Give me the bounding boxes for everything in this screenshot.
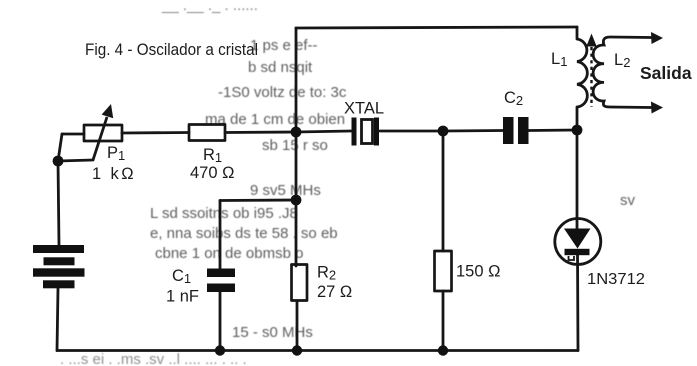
svg-text:1 ps e ef--: 1 ps e ef-- [250, 37, 318, 54]
wire: R1 to node A [225, 131, 296, 134]
svg-text:9 sv5 MHs: 9 sv5 MHs [250, 182, 321, 199]
wire: 150 ohm lower lead [442, 291, 445, 351]
wire: top horizontal rail [296, 27, 577, 28]
potentiometer P1 wiper arrow [93, 104, 113, 160]
node B junction dot [438, 126, 449, 137]
resistor R1 body [189, 125, 225, 141]
resistor R2 body [292, 265, 308, 301]
wire: node A to XTAL [296, 131, 351, 132]
svg-text:__ .__ ._ . ......: __ .__ ._ . ...... [161, 0, 258, 14]
svg-text:XTAL: XTAL [344, 100, 384, 118]
wire: C1 upper lead [219, 201, 222, 270]
wire: center vertical bottom segment below R2 [296, 301, 299, 351]
node C junction dot [572, 125, 583, 136]
wire: center vertical top segment [295, 28, 298, 266]
capacitor C2 [503, 117, 529, 144]
wire: dot to P1 wiper base [58, 160, 93, 161]
svg-text:e, nna soibs ds te 58 . so eb: e, nna soibs ds te 58 . so eb [150, 225, 338, 242]
svg-text:27 Ω: 27 Ω [317, 283, 352, 301]
svg-text:15 - s0 MHs: 15 - s0 MHs [232, 324, 313, 341]
wire: L1 bottom to node C [576, 107, 579, 130]
resistor 150 ohm body [435, 251, 452, 291]
svg-text:cbne 1 on de obmsb o: cbne 1 on de obmsb o [155, 245, 303, 262]
wire: bottom horizontal rail [57, 349, 578, 352]
potentiometer P1 body [84, 125, 122, 141]
core arrow [586, 34, 596, 47]
wire: left vertical from P1 corner down to battery [58, 134, 62, 246]
wire: battery bottom to bottom-left corner [57, 288, 58, 351]
wire: node C down to diode [576, 130, 579, 230]
bottom rail dot R2 [292, 345, 302, 355]
wire: diode through and down to bottom rail [576, 252, 579, 351]
wire: XTAL to node B [380, 130, 443, 133]
wire: 150 ohm upper lead [442, 131, 445, 251]
wire: node B to C2 [443, 129, 503, 132]
svg-text:1N3712: 1N3712 [587, 271, 645, 288]
svg-text:Salida: Salida [640, 63, 692, 83]
transformer core dashed line [590, 47, 592, 107]
inductor L2 [593, 37, 610, 107]
crystal XTAL [352, 118, 380, 146]
node C1-top junction dot [291, 195, 302, 206]
svg-text:L sd ssoitns ob i95 .J8: L sd ssoitns ob i95 .J8 [150, 205, 298, 222]
wire: P1 left terminal [62, 133, 84, 136]
wire: C1 lower lead [219, 292, 222, 351]
node A junction dot [291, 127, 302, 138]
output wire top [610, 32, 663, 44]
svg-text:150 Ω: 150 Ω [456, 263, 500, 281]
output wire bottom [610, 102, 663, 114]
svg-text:1 kΩ: 1 kΩ [92, 165, 136, 183]
tunnel diode 1N3712 [555, 219, 601, 265]
svg-text:b sd nsqit: b sd nsqit [248, 59, 313, 76]
node P1 junction dot [53, 156, 64, 167]
svg-text:sv: sv [620, 192, 636, 209]
wire: P1 to R1 [122, 131, 189, 134]
battery B1 [33, 245, 85, 288]
wire: C1 top horizontal [220, 199, 296, 202]
wire: C2 to node C [528, 129, 577, 132]
svg-text:470 Ω: 470 Ω [190, 164, 234, 182]
capacitor C1 [207, 269, 235, 293]
svg-text:-1S0 voltz de to: 3c: -1S0 voltz de to: 3c [218, 84, 347, 101]
svg-text:1 nF: 1 nF [166, 288, 199, 306]
svg-text:Fig. 4 - Oscilador a cristal: Fig. 4 - Oscilador a cristal [85, 40, 258, 59]
bottom rail dot C1 [215, 345, 225, 355]
wire: right vertical top rail to L1 [576, 27, 579, 39]
inductor L1 [577, 39, 587, 107]
bottom rail dot 150 ohm [438, 345, 448, 355]
